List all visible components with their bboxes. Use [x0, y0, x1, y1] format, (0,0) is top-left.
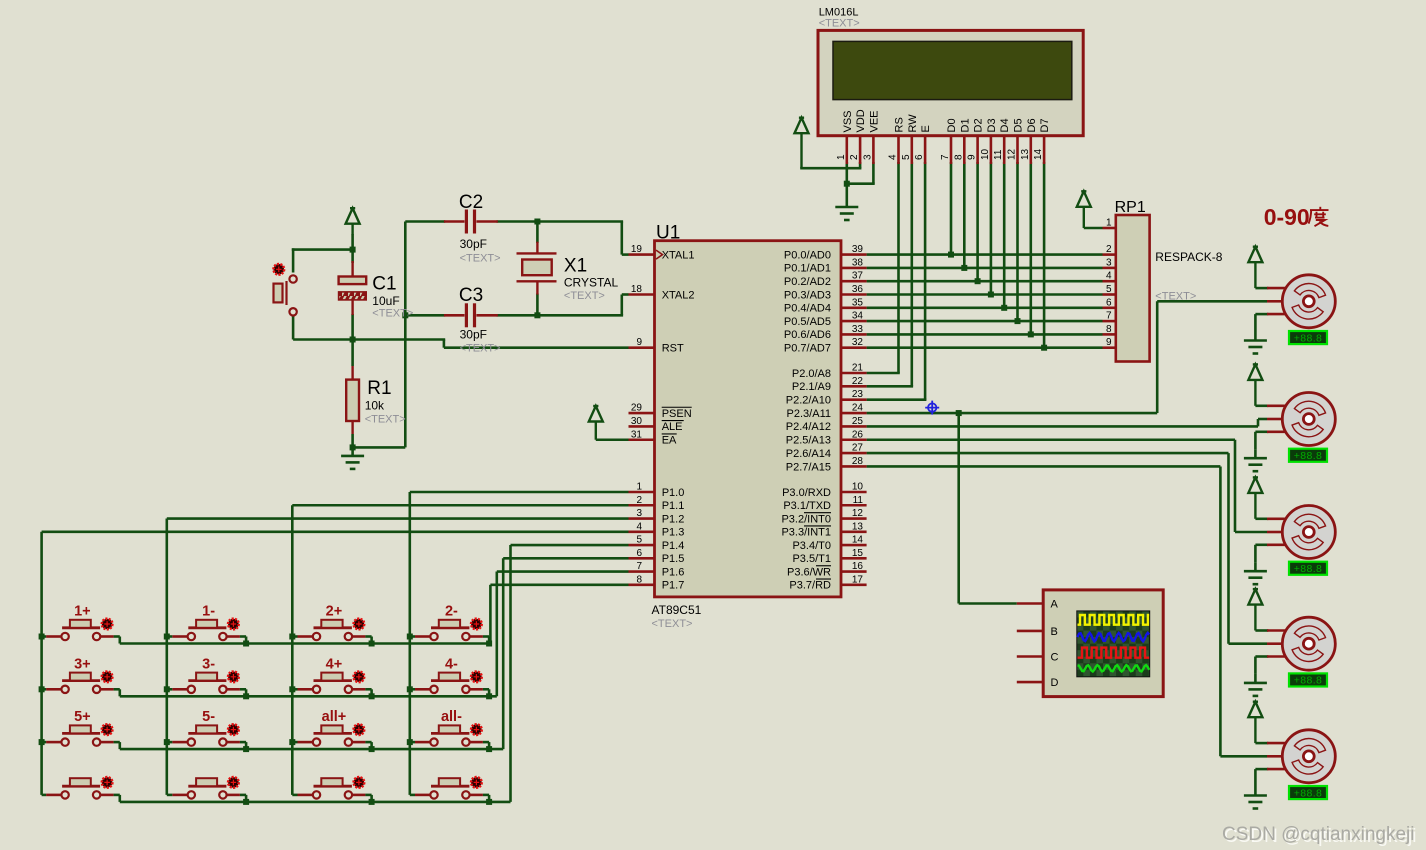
- junction col/terminal: [164, 634, 170, 640]
- wire button right jog: [240, 688, 246, 691]
- wire LCD D5 to P0.5 bus: [1016, 162, 1019, 321]
- svg-text:P0.4/AD4: P0.4/AD4: [784, 303, 831, 315]
- wire button left stub: [292, 688, 297, 691]
- junction reset top node: [350, 247, 356, 253]
- button indicator 5-: [228, 724, 239, 735]
- svg-text:+88.8: +88.8: [1294, 332, 1323, 344]
- ground M3: [1244, 562, 1267, 584]
- junction col/terminal: [289, 686, 295, 692]
- junction col/terminal: [407, 739, 413, 745]
- svg-text:6: 6: [636, 548, 642, 559]
- svg-text:C: C: [1051, 652, 1059, 664]
- svg-text:2: 2: [849, 154, 860, 160]
- push button 5+: [46, 725, 114, 745]
- svg-text:39: 39: [852, 244, 864, 255]
- svg-text:all-: all-: [441, 709, 462, 725]
- svg-text:3: 3: [636, 508, 642, 519]
- svg-text:CSDN @cqtianxingkeji: CSDN @cqtianxingkeji: [1222, 824, 1414, 845]
- svg-text:P3.2/INT0: P3.2/INT0: [781, 513, 831, 525]
- power arrow RP1: [1077, 191, 1091, 228]
- svg-text:16: 16: [852, 561, 864, 572]
- wire button left stub: [167, 741, 173, 744]
- junction jog/row: [486, 641, 492, 647]
- svg-text:22: 22: [852, 376, 864, 387]
- svg-text:U1: U1: [656, 223, 680, 244]
- wire button left stub: [167, 635, 173, 638]
- junction col/terminal: [407, 634, 413, 640]
- push button 1+: [46, 620, 114, 640]
- svg-text:D1: D1: [959, 118, 971, 132]
- svg-text:P0.5/AD5: P0.5/AD5: [784, 316, 831, 328]
- wire motor4 power: [1255, 629, 1268, 632]
- svg-text:8: 8: [1106, 324, 1112, 335]
- svg-text:PSEN: PSEN: [662, 408, 692, 420]
- junction col/terminal: [39, 686, 45, 692]
- wire button right jog: [114, 794, 120, 797]
- svg-text:13: 13: [1020, 148, 1031, 160]
- wire P2.3 to motor1 and scope A: [867, 412, 1158, 415]
- svg-text:7: 7: [636, 561, 642, 572]
- button indicator 5+: [102, 724, 113, 735]
- XTAL1 clock mark: [656, 250, 663, 259]
- wire motor5 power: [1255, 742, 1268, 745]
- junction jog/row: [243, 693, 249, 699]
- svg-text:P2.6/A14: P2.6/A14: [786, 448, 831, 460]
- svg-text:35: 35: [852, 297, 864, 308]
- junction col/terminal: [407, 686, 413, 692]
- wire LCD D4 to P0.4 bus: [1003, 162, 1006, 308]
- push button 4+: [298, 673, 366, 693]
- svg-text:P0.7/AD7: P0.7/AD7: [784, 343, 831, 355]
- svg-text:23: 23: [852, 389, 864, 400]
- U1 left pin stubs: [629, 255, 655, 585]
- svg-text:12: 12: [1007, 148, 1018, 160]
- svg-text:P3.0/RXD: P3.0/RXD: [782, 487, 831, 499]
- push button 1-: [172, 620, 240, 640]
- svg-text:1-: 1-: [202, 604, 215, 620]
- wire ground rail: [404, 222, 407, 448]
- ground M2: [1244, 449, 1267, 471]
- svg-text:30pF: 30pF: [460, 237, 487, 251]
- junction D7 node: [1041, 345, 1047, 351]
- wire C1 bottom green: [351, 314, 354, 341]
- svg-text:9: 9: [967, 154, 978, 160]
- svg-text:ALE: ALE: [662, 421, 683, 433]
- wire button left stub: [42, 635, 47, 638]
- svg-text:8: 8: [636, 574, 642, 585]
- svg-text:24: 24: [852, 403, 864, 414]
- svg-text:+88.8: +88.8: [1294, 450, 1323, 462]
- svg-text:X1: X1: [564, 256, 587, 277]
- button indicator r4c3: [354, 777, 365, 788]
- junction col/terminal: [39, 634, 45, 640]
- svg-text:+88.8: +88.8: [1294, 675, 1323, 687]
- wire motor5 ground: [1255, 768, 1268, 771]
- svg-text:<TEXT>: <TEXT>: [564, 290, 605, 302]
- wire LCD E to P2.2: [924, 162, 927, 400]
- svg-text:P3.7/RD: P3.7/RD: [789, 580, 831, 592]
- push button row4 col4: [415, 778, 483, 798]
- svg-text:XTAL2: XTAL2: [662, 289, 695, 301]
- wire button left stub: [410, 688, 415, 691]
- junction jog/row: [243, 641, 249, 647]
- svg-text:4-: 4-: [445, 656, 458, 672]
- junction X1 top: [534, 219, 540, 225]
- svg-text:R1: R1: [367, 378, 391, 399]
- svg-text:<TEXT>: <TEXT>: [460, 343, 501, 355]
- svg-text:7: 7: [940, 154, 951, 160]
- wire button left stub: [410, 794, 415, 797]
- svg-text:P1.1: P1.1: [662, 500, 685, 512]
- svg-text:7: 7: [1106, 311, 1112, 322]
- svg-text:P1.3: P1.3: [662, 527, 685, 539]
- svg-text:4+: 4+: [326, 656, 343, 672]
- junction jog/row: [486, 693, 492, 699]
- svg-text:29: 29: [631, 403, 643, 414]
- junction jog/row: [369, 746, 375, 752]
- wire button right jog: [114, 635, 120, 638]
- svg-text:P3.6/WR: P3.6/WR: [787, 566, 831, 578]
- svg-text:26: 26: [852, 429, 864, 440]
- svg-text:25: 25: [852, 416, 864, 427]
- svg-text:11: 11: [993, 149, 1004, 160]
- svg-text:12: 12: [852, 508, 864, 519]
- origin marker: [925, 401, 939, 415]
- svg-text:<TEXT>: <TEXT>: [819, 18, 860, 30]
- button indicator 4+: [354, 672, 365, 683]
- svg-text:2: 2: [1106, 244, 1112, 255]
- wire P1.7 to keypad row1: [490, 584, 628, 587]
- wire button right jog: [240, 741, 246, 744]
- push button row4 col3: [298, 778, 366, 798]
- ground M4: [1244, 674, 1267, 696]
- svg-text:P1.4: P1.4: [662, 540, 685, 552]
- resistor pack RP1 body: [1116, 215, 1150, 362]
- button indicator 3+: [102, 672, 113, 683]
- junction jog/row: [486, 746, 492, 752]
- svg-text:P1.2: P1.2: [662, 513, 685, 525]
- svg-text:P1.6: P1.6: [662, 566, 685, 578]
- display M2 value +88.8: [1289, 449, 1327, 462]
- motor M4 pin stubs: [1267, 631, 1286, 657]
- resistor R1: [346, 366, 359, 434]
- display M4 value +88.8: [1289, 673, 1327, 686]
- svg-text:P3.3/INT1: P3.3/INT1: [781, 527, 831, 539]
- svg-text:9: 9: [1106, 337, 1112, 348]
- svg-text:19: 19: [631, 244, 643, 255]
- wire button right jog: [365, 688, 371, 691]
- svg-text:14: 14: [1033, 148, 1044, 160]
- push button 4-: [415, 673, 483, 693]
- LCD pin stubs: [847, 136, 1044, 164]
- svg-text:1: 1: [836, 154, 847, 160]
- capacitor C1 electrolytic: [339, 261, 367, 315]
- wire P2.5 to motor3: [867, 438, 1235, 441]
- svg-text:5-: 5-: [202, 709, 215, 725]
- button indicator 2-: [471, 619, 482, 630]
- power arrow LCD VDD: [795, 118, 809, 169]
- svg-text:LM016L: LM016L: [819, 6, 859, 18]
- svg-text:<TEXT>: <TEXT>: [460, 253, 501, 265]
- svg-text:3: 3: [1106, 257, 1112, 268]
- wire P1.1 to keypad col3: [292, 504, 628, 507]
- wire button right jog: [365, 635, 371, 638]
- svg-text:2+: 2+: [326, 604, 343, 620]
- svg-text:P0.2/AD2: P0.2/AD2: [784, 276, 831, 288]
- svg-text:P0.1/AD1: P0.1/AD1: [784, 263, 831, 275]
- svg-text:31: 31: [631, 429, 643, 440]
- wire motor2 ground: [1255, 430, 1268, 433]
- push button all+: [298, 725, 366, 745]
- svg-text:11: 11: [853, 495, 864, 506]
- wire XTAL1: [620, 222, 623, 255]
- svg-text:P2.1/A9: P2.1/A9: [792, 381, 831, 393]
- motor M2 pin stubs: [1267, 406, 1286, 432]
- button indicator 4-: [471, 672, 482, 683]
- svg-text:VEE: VEE: [868, 110, 880, 132]
- crystal X1: [517, 242, 557, 295]
- display M3 value +88.8: [1289, 562, 1327, 575]
- wire LCD D6 to P0.6 bus: [1030, 162, 1033, 334]
- wire keypad row line 2: [120, 695, 497, 698]
- svg-text:<TEXT>: <TEXT>: [652, 618, 693, 630]
- junction LCD gnd node: [844, 181, 850, 187]
- wire crystal top net: [405, 220, 445, 223]
- wire LCD RW to P2.1: [910, 162, 913, 386]
- wire P1.4 to keypad row4: [511, 544, 629, 547]
- svg-text:P1.7: P1.7: [662, 580, 685, 592]
- svg-text:3: 3: [862, 154, 873, 160]
- svg-text:32: 32: [852, 337, 864, 348]
- svg-text:38: 38: [852, 257, 864, 268]
- svg-text:VDD: VDD: [855, 109, 867, 132]
- power arrow M1: [1248, 247, 1262, 288]
- oscilloscope pin stubs: [1017, 604, 1043, 683]
- svg-text:10k: 10k: [365, 399, 385, 413]
- motor M3 pin stubs: [1267, 519, 1286, 545]
- svg-text:2-: 2-: [445, 604, 458, 620]
- power arrow M3: [1248, 477, 1262, 518]
- svg-text:EA: EA: [662, 435, 677, 447]
- push button row4 col1: [46, 778, 114, 798]
- svg-text:P2.4/A12: P2.4/A12: [786, 421, 831, 433]
- motor M5 pin stubs: [1267, 743, 1286, 769]
- wire EA to power: [596, 438, 629, 441]
- svg-text:34: 34: [852, 311, 864, 322]
- push button 2+: [298, 620, 366, 640]
- svg-text:C2: C2: [459, 192, 483, 213]
- wire R1 stubs green: [351, 340, 354, 367]
- push button reset: [274, 275, 297, 315]
- svg-text:D7: D7: [1039, 118, 1051, 132]
- wire LCD VDD to power: [859, 162, 862, 168]
- wire button left stub: [167, 794, 173, 797]
- wire button right jog: [114, 741, 120, 744]
- wire button right jog: [483, 635, 489, 638]
- svg-text:3+: 3+: [74, 656, 91, 672]
- wire button right jog: [240, 635, 246, 638]
- wire button right jog: [483, 794, 489, 797]
- svg-text:XTAL1: XTAL1: [662, 249, 695, 261]
- junction col/terminal: [39, 739, 45, 745]
- svg-text:5: 5: [1106, 284, 1112, 295]
- junction col/terminal: [164, 739, 170, 745]
- scope waveform C red: [1078, 648, 1150, 658]
- svg-text:P2.5/A13: P2.5/A13: [786, 435, 831, 447]
- wire button left stub: [292, 635, 297, 638]
- button indicator 1+: [102, 619, 113, 630]
- wire button left stub: [167, 688, 173, 691]
- wire motor3 ground: [1255, 543, 1268, 546]
- capacitor C2: [444, 220, 498, 223]
- power arrow M4: [1248, 589, 1262, 630]
- wire LCD RS to P2.0: [897, 162, 900, 373]
- junction R1 bottom node: [350, 444, 356, 450]
- svg-text:D5: D5: [1013, 118, 1025, 132]
- svg-text:2: 2: [636, 495, 642, 506]
- display M5 value +88.8: [1289, 786, 1327, 799]
- svg-text:P0.0/AD0: P0.0/AD0: [784, 249, 831, 261]
- U1 right pin stubs: [841, 255, 867, 585]
- wire RP1 pin1 to power: [1084, 227, 1103, 230]
- ground M5: [1244, 787, 1267, 809]
- button reset indicator: [274, 264, 285, 275]
- button indicator all-: [471, 724, 482, 735]
- svg-text:CRYSTAL: CRYSTAL: [564, 276, 619, 290]
- svg-text:8: 8: [953, 154, 964, 160]
- power arrow M2: [1248, 364, 1262, 405]
- junction jog/row: [369, 693, 375, 699]
- svg-text:1: 1: [1106, 218, 1112, 229]
- button indicator r4c2: [228, 777, 239, 788]
- svg-text:5: 5: [901, 154, 912, 160]
- wire motor4 ground: [1255, 655, 1268, 658]
- svg-text:+88.8: +88.8: [1294, 787, 1323, 799]
- svg-text:27: 27: [852, 443, 864, 454]
- motor M4: [1282, 617, 1335, 670]
- junction jog/row: [369, 641, 375, 647]
- power arrow reset: [346, 208, 360, 235]
- svg-text:D2: D2: [973, 118, 985, 132]
- junction jog/row: [369, 799, 375, 805]
- svg-text:33: 33: [852, 324, 864, 335]
- RP1 pin stubs: [1103, 228, 1116, 348]
- svg-text:6: 6: [1106, 297, 1112, 308]
- push button 2-: [415, 620, 483, 640]
- motor M1 pin stubs: [1267, 288, 1286, 314]
- wire P1.0 to keypad col4: [410, 491, 629, 494]
- display M1 value +88.8: [1289, 331, 1327, 344]
- wire LCD D1 to P0.1 bus: [963, 162, 966, 268]
- junction jog/row: [243, 799, 249, 805]
- wire XTAL2: [620, 295, 623, 316]
- svg-text:C1: C1: [372, 273, 396, 294]
- svg-text:RP1: RP1: [1115, 199, 1146, 216]
- svg-text:5+: 5+: [74, 709, 91, 725]
- svg-text:P2.3/A11: P2.3/A11: [787, 408, 831, 420]
- svg-text:A: A: [1051, 599, 1059, 611]
- svg-text:P3.5/T1: P3.5/T1: [792, 553, 831, 565]
- wire button right jog: [483, 741, 489, 744]
- wire motor3 power: [1255, 517, 1268, 520]
- svg-text:P0.6/AD6: P0.6/AD6: [784, 329, 831, 341]
- svg-text:P1.5: P1.5: [662, 553, 685, 565]
- wire button right jog: [483, 688, 489, 691]
- wire P2.7 to motor5: [867, 465, 1221, 468]
- svg-text:0-90: 0-90: [1264, 204, 1310, 230]
- wire button right jog: [365, 794, 371, 797]
- svg-text:<TEXT>: <TEXT>: [372, 308, 413, 320]
- svg-text:D4: D4: [999, 118, 1011, 132]
- svg-text:15: 15: [852, 548, 864, 559]
- ground M1: [1244, 332, 1267, 354]
- scope waveform D green: [1078, 665, 1150, 671]
- wire C1 top stub green: [351, 250, 354, 263]
- wire P2.4 to motor2: [867, 425, 1258, 428]
- svg-text:3-: 3-: [202, 656, 215, 672]
- junction D1 node: [961, 265, 967, 271]
- svg-text:5: 5: [636, 535, 642, 546]
- svg-text:1+: 1+: [74, 604, 91, 620]
- wire button left stub: [42, 741, 47, 744]
- junction D0 node: [948, 252, 954, 258]
- wire P2.6 to motor4: [867, 452, 1229, 455]
- svg-text:4: 4: [636, 521, 642, 532]
- svg-text:1: 1: [636, 482, 642, 493]
- junction D6 node: [1028, 331, 1034, 337]
- svg-text:30pF: 30pF: [460, 328, 487, 342]
- op chip U1 body: [655, 241, 842, 597]
- junction D2 node: [975, 278, 981, 284]
- motor M5: [1282, 730, 1335, 783]
- button indicator 3-: [228, 672, 239, 683]
- svg-text:+88.8: +88.8: [1294, 563, 1323, 575]
- svg-text:13: 13: [852, 521, 864, 532]
- wire motor1 ground: [1255, 313, 1268, 316]
- svg-text:10uF: 10uF: [372, 294, 399, 308]
- svg-text:4: 4: [1106, 271, 1112, 282]
- junction X1 bottom: [534, 312, 540, 318]
- button indicator r4c4: [471, 777, 482, 788]
- junction jog/row: [243, 746, 249, 752]
- svg-text:P3.4/T0: P3.4/T0: [792, 540, 831, 552]
- svg-text:VSS: VSS: [842, 110, 854, 132]
- wire P1.2 to keypad col2: [167, 517, 629, 520]
- wire keypad row line 4: [120, 801, 511, 804]
- svg-text:P1.0: P1.0: [662, 487, 685, 499]
- LCD LM016L body: [818, 30, 1083, 135]
- svg-text:D3: D3: [986, 118, 998, 132]
- button indicator 1-: [228, 619, 239, 630]
- wire P1.5 to keypad row3: [503, 557, 628, 560]
- svg-text:30: 30: [631, 416, 643, 427]
- svg-text:P2.7/A15: P2.7/A15: [786, 461, 831, 473]
- wire button right jog: [114, 688, 120, 691]
- junction jog/row: [486, 799, 492, 805]
- svg-text:10: 10: [852, 482, 864, 493]
- power arrow EA: [589, 406, 603, 440]
- svg-text:RS: RS: [894, 117, 906, 132]
- wire button left stub: [292, 794, 297, 797]
- wire LCD D3 to P0.3 bus: [990, 162, 993, 295]
- svg-text:all+: all+: [322, 709, 347, 725]
- junction D4 node: [1001, 305, 1007, 311]
- motor M3: [1282, 506, 1335, 559]
- junction D5 node: [1015, 318, 1021, 324]
- svg-text:4: 4: [888, 154, 899, 160]
- wire keypad row line 3: [120, 748, 503, 751]
- wire button left stub: [42, 688, 47, 691]
